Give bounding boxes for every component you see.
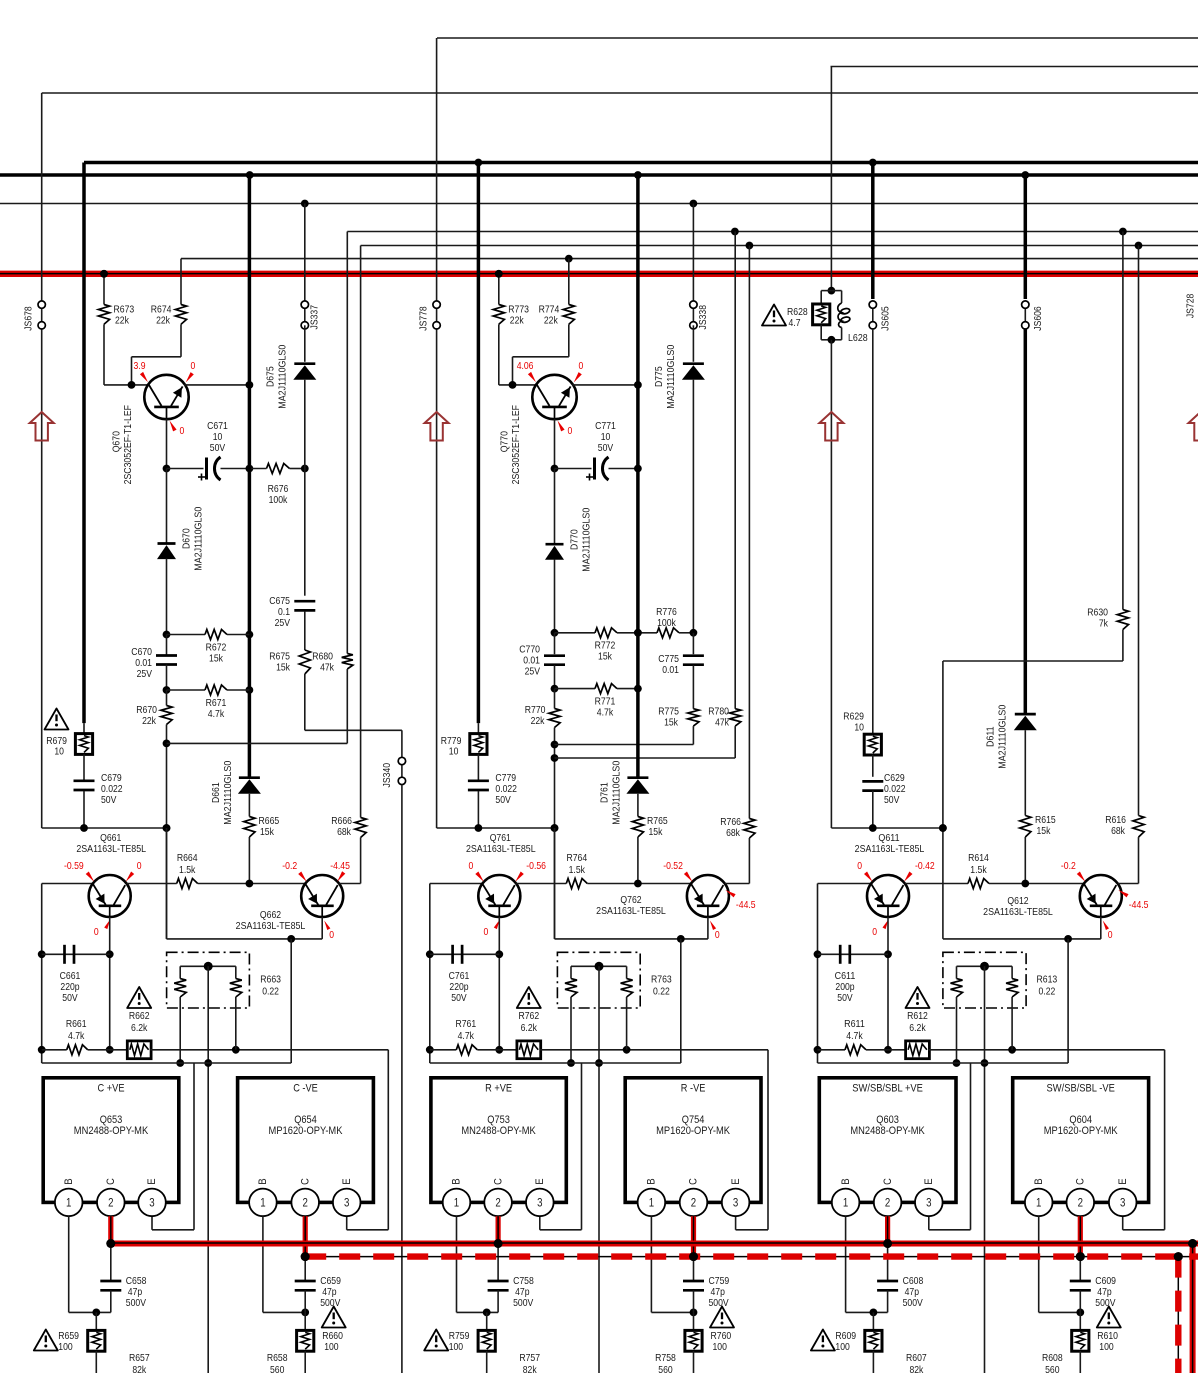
svg-text:MN2488-OPY-MK: MN2488-OPY-MK — [74, 1125, 149, 1137]
voltage mark — [134, 361, 149, 382]
voltage mark — [94, 920, 110, 939]
svg-text:0.022: 0.022 — [101, 784, 123, 795]
wire collector — [572, 381, 642, 389]
svg-text:C758: C758 — [513, 1276, 534, 1287]
voltage mark — [186, 361, 196, 383]
resistor R614 — [905, 853, 1084, 889]
svg-text:2: 2 — [691, 1198, 696, 1210]
label R658 — [267, 1353, 288, 1373]
svg-text:-0.2: -0.2 — [1061, 861, 1076, 872]
svg-text:50V: 50V — [598, 443, 614, 454]
svg-text:R775: R775 — [658, 707, 679, 718]
resistor R771 — [551, 684, 638, 719]
svg-text:100: 100 — [58, 1342, 73, 1353]
resistor R628 — [813, 287, 836, 340]
svg-text:R670: R670 — [136, 705, 157, 716]
wire pin3 left riser — [152, 1063, 194, 1230]
svg-text:R779: R779 — [441, 736, 462, 747]
label R657 — [129, 1353, 150, 1373]
test arrow up1 — [30, 412, 54, 441]
svg-text:47k: 47k — [320, 663, 335, 674]
svg-text:0: 0 — [715, 930, 720, 941]
svg-text:R679: R679 — [46, 736, 67, 747]
svg-text:R771: R771 — [595, 697, 616, 708]
svg-text:0.22: 0.22 — [653, 987, 670, 998]
label C771 — [595, 421, 616, 454]
wire pinB — [457, 1216, 499, 1316]
junction dots on buses — [100, 270, 1197, 1261]
svg-text:68k: 68k — [337, 827, 352, 838]
wire top net 1 — [437, 37, 1198, 39]
svg-text:MN2488-OPY-MK: MN2488-OPY-MK — [461, 1125, 536, 1137]
svg-text:R612: R612 — [907, 1011, 928, 1022]
svg-text:JS728: JS728 — [1185, 293, 1196, 318]
diode D761 — [626, 778, 649, 817]
svg-text:D670: D670 — [182, 528, 193, 549]
wire pinC red — [494, 1216, 503, 1248]
svg-text:2SA1163L-TE85L: 2SA1163L-TE85L — [236, 921, 306, 932]
svg-text:MA2J1110GLS0: MA2J1110GLS0 — [998, 704, 1009, 768]
svg-text:R611: R611 — [844, 1019, 865, 1030]
diode D611 — [1014, 714, 1037, 815]
capacitor C611 — [818, 945, 889, 1004]
resistor R661 — [42, 1019, 110, 1055]
label R628 — [787, 307, 808, 329]
capacitor C775 — [658, 633, 704, 676]
svg-text:10: 10 — [54, 747, 64, 758]
voltage mark — [710, 921, 720, 942]
svg-text:R673: R673 — [114, 305, 135, 316]
wire — [477, 754, 479, 780]
wire pinC red — [106, 1216, 115, 1248]
wire thick D611 feed — [1024, 329, 1028, 714]
transistor Q612 — [1080, 875, 1122, 917]
resistor R765 — [632, 816, 668, 884]
transistor Q662 — [301, 875, 343, 917]
wire thick rail upper — [84, 159, 1198, 167]
svg-text:D775: D775 — [654, 366, 665, 387]
wire left vertical — [814, 884, 871, 1064]
svg-text:100: 100 — [324, 1342, 339, 1353]
svg-text:D611: D611 — [986, 726, 997, 747]
wire emitter line — [943, 917, 1101, 943]
svg-text:3: 3 — [733, 1198, 738, 1210]
voltage mark — [872, 920, 888, 939]
svg-text:1.5k: 1.5k — [970, 865, 987, 876]
svg-text:R763: R763 — [651, 975, 672, 986]
wire net y231 — [347, 228, 1198, 236]
svg-text:R759: R759 — [449, 1331, 470, 1342]
svg-text:15k: 15k — [649, 827, 664, 838]
svg-text:3.9: 3.9 — [134, 361, 146, 372]
voltage mark — [574, 361, 584, 383]
wire D775 feed — [692, 204, 694, 305]
wire pin3 right riser — [1123, 1050, 1165, 1230]
wire thick vertical left — [82, 163, 86, 734]
svg-text:R661: R661 — [66, 1019, 87, 1030]
svg-text:0: 0 — [568, 426, 573, 437]
svg-text:6.2k: 6.2k — [909, 1023, 926, 1034]
diode D770 — [545, 469, 564, 633]
svg-text:47k: 47k — [715, 718, 730, 729]
label R757 — [519, 1353, 540, 1373]
resistor R616 — [1105, 246, 1144, 884]
wire pin3 left riser — [929, 1063, 971, 1230]
svg-text:4.06: 4.06 — [517, 361, 534, 372]
label Q761 — [466, 833, 536, 855]
svg-text:10: 10 — [213, 432, 223, 443]
wire q1 emitter — [884, 917, 892, 1054]
svg-text:R660: R660 — [322, 1331, 343, 1342]
svg-text:R -VE: R -VE — [681, 1083, 706, 1095]
wire y828 — [831, 824, 946, 832]
svg-text:C671: C671 — [207, 421, 228, 432]
voltage mark — [126, 861, 142, 882]
svg-text:JS337: JS337 — [309, 305, 320, 330]
svg-text:0: 0 — [180, 426, 185, 437]
svg-text:C779: C779 — [495, 773, 516, 784]
svg-text:C +VE: C +VE — [98, 1083, 125, 1095]
jumper JS340 — [382, 757, 405, 787]
voltage mark — [558, 421, 573, 438]
svg-text:2SA1163L-TE85L: 2SA1163L-TE85L — [855, 844, 925, 855]
svg-text:JS678: JS678 — [23, 306, 34, 331]
svg-text:47p: 47p — [515, 1287, 530, 1298]
svg-text:50V: 50V — [837, 993, 853, 1004]
label R608 — [1042, 1353, 1063, 1373]
svg-text:82k: 82k — [132, 1365, 147, 1373]
label D670 — [182, 506, 205, 570]
svg-text:R629: R629 — [843, 712, 864, 723]
red bus collectors — [111, 1239, 1198, 1248]
label R609 — [835, 1331, 856, 1353]
svg-text:-4.45: -4.45 — [330, 861, 350, 872]
wire — [540, 1046, 768, 1054]
voltage mark — [1118, 890, 1148, 911]
resistor R779 — [470, 734, 487, 755]
svg-text:B: B — [646, 1178, 658, 1184]
label Q611 — [855, 833, 925, 855]
resistor R671 — [163, 685, 250, 720]
wire — [1067, 939, 1069, 1063]
red dashed bus — [305, 1252, 1198, 1261]
svg-text:15k: 15k — [664, 718, 679, 729]
wire pinB — [651, 1216, 697, 1316]
svg-text:500V: 500V — [1095, 1298, 1115, 1309]
label C779 — [495, 773, 517, 806]
transistor Q762 — [687, 875, 729, 917]
svg-text:Q661: Q661 — [100, 833, 121, 844]
resistor R676 — [249, 464, 308, 474]
test arrow up4 — [1189, 412, 1198, 441]
wire pinC red — [301, 1216, 310, 1261]
voltage mark — [1103, 921, 1113, 942]
resistor R774 — [513, 259, 575, 385]
svg-text:SW/SB/SBL +VE: SW/SB/SBL +VE — [852, 1083, 923, 1095]
wire q2 right — [339, 883, 360, 885]
resistor R772 — [551, 628, 638, 663]
label Q661 — [76, 833, 146, 855]
svg-text:R657: R657 — [129, 1353, 150, 1364]
svg-text:Q762: Q762 — [620, 895, 641, 906]
resistor R770 — [525, 689, 560, 939]
svg-text:R616: R616 — [1105, 815, 1126, 826]
svg-text:E: E — [923, 1178, 935, 1184]
wire to JS340 — [305, 730, 402, 757]
resistor R775 — [658, 665, 699, 744]
wire thick rail lower — [0, 171, 1198, 179]
svg-text:R608: R608 — [1042, 1353, 1063, 1364]
svg-text:47p: 47p — [322, 1287, 337, 1298]
svg-text:R757: R757 — [519, 1353, 540, 1364]
svg-text:R672: R672 — [206, 643, 227, 654]
capacitor C609 — [1070, 1257, 1116, 1313]
svg-text:1: 1 — [260, 1198, 265, 1210]
wire JS778 feed — [436, 38, 438, 828]
svg-text:0: 0 — [1108, 930, 1113, 941]
capacitor C661 — [42, 945, 110, 1004]
svg-text:Q662: Q662 — [260, 910, 281, 921]
inductor L628 — [828, 291, 851, 344]
svg-text:47p: 47p — [1097, 1287, 1112, 1298]
jumper JS605 — [869, 301, 891, 734]
svg-text:C675: C675 — [269, 596, 290, 607]
label C679 — [101, 773, 123, 806]
warning R628 — [762, 305, 786, 326]
voltage mark — [1061, 861, 1085, 882]
capacitor C659 — [295, 1257, 341, 1313]
svg-text:2SC3052EF-T1-LEF: 2SC3052EF-T1-LEF — [511, 405, 522, 484]
label R759 — [449, 1331, 470, 1353]
svg-text:-0.2: -0.2 — [282, 861, 297, 872]
diode D775 — [682, 364, 705, 633]
svg-text:R758: R758 — [655, 1353, 676, 1364]
wire collector — [184, 381, 253, 389]
svg-text:R607: R607 — [906, 1353, 927, 1364]
svg-text:C770: C770 — [519, 645, 540, 656]
svg-text:JS605: JS605 — [880, 306, 891, 331]
capacitor C770 — [519, 633, 565, 689]
svg-text:R676: R676 — [268, 484, 289, 495]
red bus vertical right — [1190, 1244, 1196, 1373]
svg-text:3: 3 — [344, 1198, 349, 1210]
wire — [290, 939, 292, 1063]
resistor R659 — [88, 1312, 105, 1373]
svg-text:0: 0 — [579, 361, 584, 372]
transistor Q661 — [89, 875, 131, 917]
svg-text:JS778: JS778 — [418, 306, 429, 331]
svg-text:MP1620-OPY-MK: MP1620-OPY-MK — [269, 1125, 343, 1137]
svg-text:E: E — [534, 1178, 546, 1184]
resistor R759 — [478, 1312, 495, 1373]
svg-text:0: 0 — [872, 927, 877, 938]
svg-text:B: B — [451, 1178, 463, 1184]
svg-text:R615: R615 — [1035, 815, 1056, 826]
svg-text:R613: R613 — [1037, 975, 1058, 986]
capacitor C629 — [862, 773, 906, 828]
svg-text:C658: C658 — [126, 1276, 147, 1287]
svg-text:R680: R680 — [312, 652, 333, 663]
svg-text:MA2J1110GLS0: MA2J1110GLS0 — [223, 760, 234, 824]
svg-text:25V: 25V — [525, 667, 541, 678]
wire thick center — [246, 175, 254, 778]
svg-text:2SA1163L-TE85L: 2SA1163L-TE85L — [596, 906, 666, 917]
svg-text:47p: 47p — [905, 1287, 920, 1298]
warning R612 — [906, 987, 930, 1008]
wire q1 emitter — [106, 917, 114, 1054]
svg-text:10: 10 — [854, 723, 864, 734]
wire y828 — [42, 824, 171, 832]
svg-text:22k: 22k — [510, 316, 525, 327]
warning R760 — [710, 1307, 734, 1328]
wire left vertical — [38, 884, 93, 1064]
wire y1063 — [42, 1062, 292, 1064]
capacitor C758 — [488, 1244, 534, 1313]
svg-text:68k: 68k — [726, 828, 741, 839]
svg-text:500V: 500V — [126, 1298, 146, 1309]
warning R609 — [811, 1330, 835, 1351]
label R613 — [1037, 975, 1058, 998]
wire left vertical — [426, 884, 482, 1064]
voltage mark — [330, 861, 350, 882]
svg-text:4.7k: 4.7k — [68, 1031, 85, 1042]
resistor R762 — [499, 1011, 540, 1059]
resistor R776 — [634, 607, 697, 638]
label D675 — [266, 344, 289, 408]
red power bus — [0, 270, 1198, 278]
resistor R764 — [516, 853, 691, 889]
svg-text:100: 100 — [449, 1342, 464, 1353]
svg-text:0: 0 — [484, 927, 489, 938]
svg-text:25V: 25V — [275, 618, 291, 629]
wire pinC red — [1076, 1216, 1085, 1261]
warning R762 — [517, 987, 541, 1008]
svg-text:C659: C659 — [320, 1276, 341, 1287]
svg-text:2SA1163L-TE85L: 2SA1163L-TE85L — [466, 844, 536, 855]
svg-text:E: E — [341, 1178, 353, 1184]
warning R660 — [322, 1307, 346, 1328]
svg-text:R780: R780 — [708, 707, 729, 718]
svg-text:0: 0 — [469, 861, 474, 872]
svg-text:200p: 200p — [835, 982, 854, 993]
svg-text:C759: C759 — [709, 1276, 730, 1287]
svg-text:47p: 47p — [128, 1287, 143, 1298]
svg-text:100k: 100k — [657, 618, 677, 629]
voltage mark — [282, 861, 306, 882]
svg-text:15k: 15k — [598, 652, 613, 663]
jumper JS338 — [690, 301, 709, 362]
svg-text:SW/SB/SBL -VE: SW/SB/SBL -VE — [1047, 1083, 1115, 1095]
wire JS340 down — [401, 785, 403, 1373]
wire emitter line — [167, 828, 323, 943]
svg-text:4.7k: 4.7k — [458, 1031, 475, 1042]
svg-text:D661: D661 — [211, 782, 222, 803]
svg-text:-0.56: -0.56 — [526, 861, 546, 872]
svg-text:R671: R671 — [206, 698, 227, 709]
svg-text:0.01: 0.01 — [523, 656, 540, 667]
resistor R665 — [244, 816, 280, 884]
svg-text:2: 2 — [885, 1198, 890, 1210]
svg-text:50V: 50V — [210, 443, 226, 454]
svg-text:4.7k: 4.7k — [846, 1031, 863, 1042]
svg-text:C775: C775 — [658, 654, 679, 665]
wire R630 link — [943, 661, 1123, 939]
svg-text:0.1: 0.1 — [278, 607, 290, 618]
resistor R630 — [1087, 232, 1128, 662]
svg-text:JS606: JS606 — [1033, 306, 1044, 331]
jumper JS778 — [418, 301, 440, 331]
svg-text:L628: L628 — [848, 333, 868, 344]
svg-text:15k: 15k — [276, 663, 291, 674]
svg-text:Q770: Q770 — [500, 431, 511, 452]
svg-text:0: 0 — [137, 861, 142, 872]
resistor R613 — [943, 952, 1026, 1373]
label R763 — [651, 975, 672, 998]
label R779 — [441, 736, 462, 758]
wire y1063 — [430, 1062, 681, 1064]
voltage mark — [469, 861, 484, 882]
svg-text:22k: 22k — [544, 316, 559, 327]
label Q662 — [236, 910, 306, 932]
wire pinB — [846, 1216, 888, 1316]
wire R628 feed — [830, 67, 832, 291]
jumper JS678 — [23, 301, 45, 331]
svg-text:500V: 500V — [903, 1298, 923, 1309]
wire emitter — [551, 419, 559, 472]
resistor R662 — [110, 1011, 151, 1059]
warning R662 — [127, 987, 151, 1008]
wire pinB — [263, 1216, 309, 1316]
wire top net 3 — [42, 92, 1198, 94]
svg-text:7k: 7k — [1099, 619, 1109, 630]
resistor R670 — [136, 690, 172, 939]
svg-text:C: C — [492, 1178, 504, 1185]
svg-text:B: B — [840, 1178, 852, 1184]
svg-text:R663: R663 — [260, 975, 281, 986]
resistor R612 — [888, 1011, 929, 1059]
voltage mark — [725, 890, 755, 911]
svg-text:50V: 50V — [451, 993, 467, 1004]
voltage mark — [515, 861, 546, 882]
svg-text:E: E — [146, 1178, 158, 1184]
wire — [83, 754, 85, 780]
svg-text:500V: 500V — [320, 1298, 340, 1309]
svg-text:-0.52: -0.52 — [663, 861, 683, 872]
svg-text:R764: R764 — [566, 853, 587, 864]
jumper JS728 label — [1185, 293, 1196, 318]
voltage mark — [904, 861, 935, 882]
wire pin3 left riser — [540, 1063, 582, 1230]
svg-text:R761: R761 — [455, 1019, 476, 1030]
svg-text:E: E — [730, 1178, 742, 1184]
resistor R629 — [843, 712, 881, 756]
svg-text:R674: R674 — [151, 305, 172, 316]
capacitor C779 — [468, 781, 489, 828]
svg-text:MA2J1110GLS0: MA2J1110GLS0 — [194, 506, 205, 570]
svg-text:2: 2 — [108, 1198, 113, 1210]
svg-text:2SC3052EF-T1-LEF: 2SC3052EF-T1-LEF — [123, 405, 134, 484]
svg-text:C661: C661 — [60, 971, 81, 982]
resistor R773 — [493, 274, 529, 385]
svg-text:MA2J1110GLS0: MA2J1110GLS0 — [278, 344, 289, 408]
svg-text:R609: R609 — [835, 1331, 856, 1342]
svg-text:22k: 22k — [531, 716, 546, 727]
resistor R609 — [865, 1312, 882, 1373]
svg-text:100k: 100k — [269, 495, 289, 506]
svg-text:R770: R770 — [525, 705, 546, 716]
wire thick JS605 stub — [871, 163, 875, 300]
label D775 — [654, 344, 677, 408]
